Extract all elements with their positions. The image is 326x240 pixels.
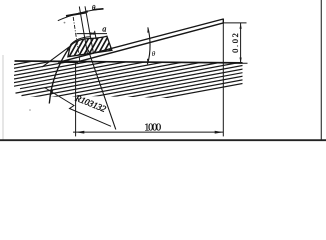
top theta dimension line bbox=[58, 9, 104, 21]
big arc top arrowhead bbox=[67, 46, 71, 51]
1000 dimension line bbox=[73, 131, 223, 133]
1000 arrowheads bbox=[76, 131, 85, 134]
graduation line 1 bbox=[79, 7, 87, 56]
graduation tick 3 bbox=[95, 31, 97, 40]
faint speck bottom left bbox=[29, 109, 31, 111]
left faint page border bbox=[2, 55, 4, 140]
0.02 bottom extension line bbox=[231, 62, 248, 64]
bottom page border bbox=[0, 139, 326, 141]
straight construction line to block corner bbox=[42, 46, 70, 67]
inclined bar right end edge bbox=[222, 19, 224, 24]
right page border bbox=[320, 0, 322, 141]
big arc bottom arrowhead bbox=[51, 90, 53, 96]
theta arc top arrowhead bbox=[147, 28, 149, 33]
a dimension line bbox=[77, 33, 107, 35]
apex merge blob bbox=[58, 60, 78, 63]
theta arc bottom arrowhead bbox=[147, 59, 149, 64]
R103132 big arc bbox=[49, 46, 71, 104]
vial upper arc (double line at block top-left) bbox=[70, 37, 90, 45]
centerline dash-dot bbox=[73, 17, 80, 61]
vial block outline bbox=[68, 36, 112, 57]
svg-text:θ: θ bbox=[92, 3, 96, 12]
top theta arrowheads bbox=[80, 10, 88, 13]
surface plate top line bbox=[15, 61, 243, 63]
R103132 leader polyline bbox=[45, 88, 112, 127]
steep line to 1000 dim bbox=[88, 50, 116, 130]
top theta dim thickening sliver bbox=[66, 13, 86, 16]
0.02 dimension line bbox=[240, 23, 242, 63]
graduation line 2 bbox=[85, 6, 94, 53]
inclined bar top edge bbox=[61, 19, 224, 62]
top theta dim right tail thickening bbox=[93, 8, 104, 11]
a dim arrows (inside, pointing outward) bbox=[89, 32, 94, 35]
svg-text:1000: 1000 bbox=[144, 123, 161, 134]
faint dot bbox=[64, 22, 66, 24]
svg-text:θ: θ bbox=[152, 49, 156, 58]
inclined bar bottom edge bbox=[76, 23, 224, 62]
1000 right extension line bbox=[222, 23, 224, 136]
theta angle arc bbox=[147, 27, 150, 64]
0.02 top extension line bbox=[223, 22, 246, 24]
1000 left extension line bbox=[75, 63, 77, 137]
svg-text:0.02: 0.02 bbox=[230, 33, 240, 53]
svg-text:a: a bbox=[102, 25, 106, 34]
0.02 arrowheads bbox=[240, 23, 242, 29]
